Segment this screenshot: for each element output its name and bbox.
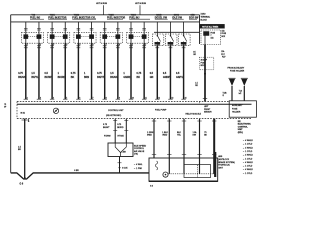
svg-text:CONTROL: CONTROL [134,148,145,150]
wire B1 [147,119,156,158]
fuse right labels [222,30,227,59]
svg-text:← 1 CYLD: ← 1 CYLD [243,173,253,175]
svg-text:BRAKE SYSTEM): BRAKE SYSTEM) [218,161,235,164]
svg-text:FUSE: FUSE [232,108,238,110]
svg-text:FUEL PUMP: FUEL PUMP [155,109,167,111]
svg-text:5: 5 [185,44,186,46]
svg-text:3: 3 [40,97,41,99]
svg-text:X4/10: X4/10 [201,14,206,16]
svg-text:← 1 CYLD: ← 1 CYLD [243,166,253,168]
wire switch feed [154,31,200,33]
svg-text:← 1 CYLD: ← 1 CYLD [243,158,253,160]
idle valve box [108,143,133,157]
svg-text:IDLE SPEED: IDLE SPEED [134,146,147,148]
svg-text:GN/RD: GN/RD [123,76,131,79]
label 1 BR [122,151,127,153]
svg-text:GN: GN [150,76,154,79]
svg-text:BK/RD: BK/RD [117,127,124,129]
svg-text:Y62/1: Y62/1 [50,15,56,17]
svg-text:1: 1 [132,44,133,46]
svg-text:← 1 CYLD: ← 1 CYLD [243,144,253,146]
svg-text:7: 7 [93,97,94,99]
svg-text:F1/7: F1/7 [221,54,224,56]
svg-text:10: 10 [132,97,134,99]
ke label [238,121,252,134]
switch unit 1 [152,22,164,46]
svg-text:HOT IN RUN: HOT IN RUN [96,3,108,5]
svg-text:(EZL): (EZL) [238,132,243,134]
svg-text:7: 7 [106,44,107,46]
injector unit 1 [21,22,43,49]
label Y62/2 [72,15,96,20]
svg-text:8: 8 [106,97,107,99]
svg-text:BK/WT: BK/WT [103,127,110,129]
idle valve label [134,146,147,156]
wire W13 [176,44,186,99]
svg-text:← 4 WHL: ← 4 WHL [134,164,144,166]
label Y62 [30,15,44,20]
svg-text:← 1 CYLD: ← 1 CYLD [243,151,253,153]
wire W7 [97,43,107,99]
svg-text:(Y6): (Y6) [134,154,138,156]
svg-text:BK/YL: BK/YL [31,76,39,79]
svg-text:6: 6 [93,44,94,46]
svg-text:1 BLK: 1 BLK [162,132,168,134]
svg-text:2: 2 [40,44,41,46]
svg-text:0.75: 0.75 [97,72,102,75]
svg-text:G 105: G 105 [122,168,128,170]
svg-text:AIR VALVE: AIR VALVE [134,150,145,153]
svg-text:FUSE HOLDER: FUSE HOLDER [230,70,245,72]
svg-text:0.75: 0.75 [18,72,23,75]
svg-text:11: 11 [145,97,147,99]
svg-text:6: 6 [79,97,80,99]
wire W4 [58,43,68,99]
svg-text:S29/2: S29/2 [156,15,162,17]
svg-text:86 31: 86 31 [21,113,26,115]
svg-text:FRONT: FRONT [204,109,211,111]
wire ground left [18,119,29,186]
svg-text:CONTROL UNIT: CONTROL UNIT [108,110,124,112]
svg-text:BK/GN: BK/GN [18,76,26,79]
svg-text:(ANTILOCK: (ANTILOCK [218,158,230,161]
injector unit 4 [100,22,122,49]
svg-text:5: 5 [66,97,67,99]
svg-text:4: 4 [66,44,67,46]
svg-text:BK/VT: BK/VT [97,76,105,79]
header tag 2 [135,3,147,15]
svg-text:BLK: BLK [177,132,182,134]
svg-text:/GN: /GN [193,135,197,137]
fuse box [201,30,221,45]
label S30 [172,15,183,20]
label Y62/3 [107,15,126,20]
label S31 [189,15,199,20]
svg-text:ABS: ABS [218,155,223,158]
ground point W10 [53,108,58,113]
svg-text:9: 9 [119,97,120,99]
svg-text:12: 12 [158,97,160,99]
hot at all times bar [200,24,225,28]
svg-text:AUXILIARY: AUXILIARY [232,104,243,107]
svg-text:RT/SW: RT/SW [104,136,111,138]
svg-text:ELECTRONIC: ELECTRONIC [238,124,252,126]
abs right label [218,155,235,169]
wire W5 [71,43,81,99]
triangle feed 1 [223,78,236,101]
svg-text:BRN: BRN [84,76,89,79]
injector unit 3 [74,22,96,49]
svg-text:b/2: b/2 [239,93,242,95]
abs unit box [149,152,218,181]
svg-text:FUSE: FUSE [201,62,207,64]
label Y62/1 [48,15,67,20]
header tag 1 [96,3,108,15]
wire B4 [193,119,202,174]
svg-text:0.75: 0.75 [71,72,76,75]
svg-text:1: 1 [27,44,28,46]
svg-text:S30/1: S30/1 [174,15,180,17]
svg-text:BK/WT: BK/WT [45,76,53,79]
idle valve ground [118,157,129,173]
label below fuse wire [204,106,212,113]
svg-text:BK/RD: BK/RD [58,76,66,79]
svg-text:2: 2 [27,97,28,99]
wire W8 [110,43,120,99]
svg-text:BK: BK [137,76,141,79]
svg-text:← 4 WHLD: ← 4 WHLD [243,155,254,157]
svg-text:Y62/3: Y62/3 [109,15,115,17]
svg-text:SENSOR: SENSOR [204,112,212,114]
svg-text:UNIT: UNIT [238,129,243,131]
svg-text:/RED: /RED [162,135,167,137]
wire top bus [11,21,200,23]
svg-text:← 4 WHLD: ← 4 WHLD [243,169,254,171]
svg-text:Y62/2: Y62/2 [74,15,80,17]
wire B3 [177,119,186,174]
wire W9 [123,43,133,99]
svg-text:GN/WT: GN/WT [163,76,172,79]
injector unit 5 [127,22,149,49]
svg-text:CONTROL: CONTROL [238,126,249,128]
svg-text:13: 13 [171,97,173,99]
svg-text:3: 3 [53,44,54,46]
svg-text:3: 3 [158,44,159,46]
svg-text:HOLDER: HOLDER [232,112,241,114]
wire W2 [31,43,41,99]
svg-text:HOT IN RUN: HOT IN RUN [135,3,147,5]
svg-text:1 GRN: 1 GRN [147,132,154,134]
svg-text:Y62/4: Y62/4 [131,14,137,17]
abs left labels [134,164,153,188]
svg-text:(KE-JETRONIC): (KE-JETRONIC) [106,115,122,117]
label frame left [4,104,7,108]
svg-text:BK: BK [71,76,75,79]
switch unit 2 [165,22,177,46]
switch unit 3 [179,22,191,46]
label S29 [155,15,168,20]
svg-text:14: 14 [185,97,187,99]
triangle feed 2 [239,78,248,101]
svg-text:BK/GN: BK/GN [110,76,118,79]
label 6 BR bottom [74,170,79,172]
wire B2 [162,119,171,174]
wire W6 [84,43,94,99]
aux fuse top label [228,67,245,73]
control unit band [17,102,252,119]
aux fuse label box [229,101,256,117]
svg-text:← 1 PNK: ← 1 PNK [134,168,143,170]
svg-text:TERMINAL: TERMINAL [201,16,211,19]
band left pin text [21,113,26,115]
fuse wire [195,45,225,102]
svg-text:4: 4 [53,97,54,99]
wire B5 [204,119,216,174]
idle valve wires [103,119,128,143]
svg-text:← 4 WHLD: ← 4 WHLD [243,140,254,142]
injector unit 2 [48,22,70,49]
svg-text:HYDRAULIC: HYDRAULIC [218,164,230,167]
svg-text:HOT AT ALL TIMES: HOT AT ALL TIMES [202,25,219,28]
wire W10 [137,43,147,99]
svg-text:BLOCK: BLOCK [201,20,208,22]
svg-text:← 4 WHLD: ← 4 WHLD [243,162,254,164]
svg-text:8: 8 [119,44,120,46]
label 0.5 GR [193,52,196,56]
svg-text:/1: /1 [223,95,225,97]
svg-text:2: 2 [145,44,146,46]
svg-text:RT/GE: RT/GE [118,136,125,138]
svg-text:RELAY MODULE: RELAY MODULE [186,112,202,115]
svg-text:G 4: G 4 [150,186,153,188]
svg-text:/RED: /RED [147,135,152,137]
wire W12 [163,44,173,99]
svg-text:GN/YL: GN/YL [176,76,184,79]
wire W1 [18,43,28,99]
label Y62/4 [129,14,150,20]
svg-text:1 BR: 1 BR [122,151,127,153]
svg-text:← 4 WHLD: ← 4 WHLD [243,147,254,149]
wire W11 [150,44,160,99]
right arrow labels [243,140,254,175]
svg-text:F1/7: F1/7 [222,57,225,59]
svg-text:UNIT: UNIT [218,167,224,169]
svg-text:6 BR: 6 BR [74,170,79,172]
hot label [201,14,211,22]
svg-text:0.75: 0.75 [137,72,142,75]
svg-text:4: 4 [172,44,173,46]
svg-text:FROM AUXILIARY: FROM AUXILIARY [228,67,245,70]
svg-text:30 AMP: 30 AMP [201,59,208,62]
svg-text:5: 5 [80,44,81,46]
wire W3 [45,43,55,99]
